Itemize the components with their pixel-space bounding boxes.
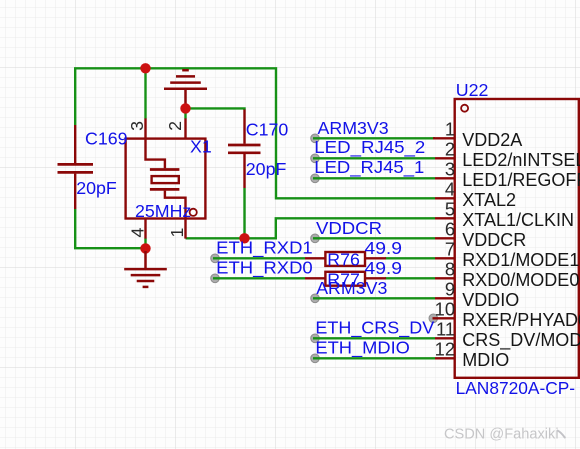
no-connect dot pin10 stub	[429, 314, 438, 323]
svg-text:LAN8720A-CP-: LAN8720A-CP-	[456, 378, 576, 398]
svg-text:ETH_MDIO: ETH_MDIO	[315, 337, 410, 358]
svg-text:C169: C169	[85, 129, 128, 149]
svg-text:2: 2	[165, 121, 185, 131]
svg-text:6: 6	[445, 219, 455, 240]
svg-text:LED1/REGOFF: LED1/REGOFF	[462, 170, 580, 190]
wire net ARM3V3 to IC pin9	[313, 297, 435, 299]
svg-text:RXD1/MODE1: RXD1/MODE1	[462, 250, 579, 270]
svg-text:49.9: 49.9	[365, 238, 403, 258]
svg-text:RXD0/MODE0: RXD0/MODE0	[462, 270, 579, 290]
svg-text:LED_RJ45_2: LED_RJ45_2	[314, 137, 425, 158]
svg-text:CRS_DV/MODE2: CRS_DV/MODE2	[462, 330, 580, 351]
svg-text:3: 3	[127, 121, 147, 131]
wire net VDDCR to IC pin6	[313, 237, 435, 239]
wire ground stub to crystal pin2	[184, 108, 186, 118]
wire crystal pin4 to ground junction	[144, 238, 146, 248]
ground symbol top (at crystal pin2)	[164, 70, 207, 108]
capacitor C170	[228, 110, 261, 189]
svg-text:VDDCR: VDDCR	[462, 230, 526, 250]
crystal X1 part-choice circle	[190, 209, 197, 216]
crystal X1 pin 2 stub	[184, 118, 186, 139]
svg-text:11: 11	[436, 319, 455, 340]
watermark swoosh	[558, 431, 565, 438]
wire pin2 junction to C170 top	[186, 108, 245, 110]
svg-text:9: 9	[445, 279, 455, 300]
svg-text:VDDIO: VDDIO	[462, 290, 519, 310]
svg-text:ARM3V3: ARM3V3	[318, 118, 389, 138]
no-connect dot pin9 wire	[311, 294, 320, 303]
junction dot at crystal pin4 / ground	[140, 243, 150, 253]
svg-text:U22: U22	[456, 80, 489, 100]
svg-text:ETH_CRS_DV: ETH_CRS_DV	[315, 317, 434, 338]
no-connect dot pin11 wire	[311, 334, 320, 343]
svg-text:7: 7	[445, 239, 455, 260]
svg-text:1: 1	[167, 228, 187, 238]
wire C169 bottom to ground junction	[75, 209, 145, 248]
svg-text:12: 12	[435, 339, 455, 360]
svg-text:8: 8	[445, 259, 455, 280]
svg-text:CSDN @Fahaxiki: CSDN @Fahaxiki	[444, 427, 559, 443]
svg-text:20pF: 20pF	[246, 159, 287, 179]
svg-text:LED_RJ45_1: LED_RJ45_1	[314, 157, 424, 178]
wire C170 bottom to XTAL1 net	[243, 188, 245, 238]
wire net LED_RJ45_2 to IC pin2	[313, 157, 435, 159]
wire net ETH_MDIO to IC pin12	[313, 357, 435, 359]
svg-text:ETH_RXD0: ETH_RXD0	[216, 257, 313, 278]
svg-text:VDD2A: VDD2A	[462, 130, 522, 150]
ground symbol bottom (at crystal pin4)	[124, 251, 167, 287]
svg-text:MDIO: MDIO	[462, 350, 509, 370]
svg-text:RXER/PHYAD0: RXER/PHYAD0	[462, 310, 580, 330]
junction dot top net at crystal pin3	[140, 63, 150, 73]
no-connect dot pin2 wire	[311, 154, 320, 163]
crystal X1 quartz body	[152, 176, 179, 183]
svg-text:1: 1	[445, 119, 455, 140]
IC pin names	[462, 130, 580, 370]
crystal X1 inner bottom lead	[165, 191, 186, 219]
svg-text:10: 10	[435, 299, 455, 320]
svg-text:LED2/nINTSEL: LED2/nINTSEL	[462, 150, 580, 170]
crystal X1 top electrode plate	[150, 168, 180, 171]
svg-text:25MHz: 25MHz	[135, 201, 191, 221]
svg-text:20pF: 20pF	[76, 178, 117, 198]
svg-text:R76: R76	[327, 250, 360, 270]
crystal X1 bottom electrode plate	[150, 188, 180, 191]
IC U22 pin stubs 1-12	[433, 138, 455, 358]
wire R77 to IC pin8	[385, 277, 435, 279]
svg-text:XTAL2: XTAL2	[462, 190, 516, 210]
capacitor C169	[58, 125, 94, 209]
no-connect dot pin7 wire	[211, 254, 220, 263]
crystal X1 body box	[126, 139, 206, 219]
wire crystal pin3 drop from top net	[144, 68, 146, 118]
IC pin numbers 1-12	[435, 119, 455, 360]
svg-text:R77: R77	[327, 270, 360, 290]
svg-text:4: 4	[127, 228, 147, 238]
crystal X1 pin 1 stub	[184, 218, 186, 239]
wire net ARM3V3 to IC pin1	[313, 137, 435, 139]
IC U22 body box	[455, 99, 579, 378]
junction dot at crystal pin2 / ground / C170	[180, 103, 190, 113]
svg-text:C170: C170	[246, 119, 289, 139]
svg-text:VDDCR: VDDCR	[316, 218, 382, 238]
svg-text:4: 4	[445, 179, 455, 200]
svg-text:49.9: 49.9	[365, 258, 403, 278]
junction dot at C170 bottom / XTAL1 net	[239, 233, 249, 243]
svg-text:XTAL1/CLKIN: XTAL1/CLKIN	[462, 210, 574, 230]
wire top net XTAL2: C169 top to corner	[75, 68, 435, 198]
wire net ETH_RXD0 to R77	[213, 277, 305, 279]
svg-text:5: 5	[445, 199, 455, 220]
wire net ETH_CRS_DV to IC pin11	[313, 337, 435, 339]
no-connect dot pin3 wire	[311, 174, 320, 183]
IC U22 pin1 marker circle	[461, 105, 468, 112]
crystal X1 pin 3 stub	[144, 118, 146, 139]
no-connect dot pin1 wire	[311, 134, 320, 143]
no-connect dot pin12 wire	[311, 354, 320, 363]
resistor R76	[305, 257, 325, 259]
wire R76 to IC pin7	[385, 257, 435, 259]
svg-text:2: 2	[445, 139, 455, 160]
svg-text:3: 3	[445, 159, 455, 180]
no-connect dot pin6 wire	[311, 234, 320, 243]
crystal X1 pin 4 stub	[144, 218, 146, 239]
resistor R77	[305, 277, 325, 279]
wire net LED_RJ45_1 to IC pin3	[313, 177, 435, 179]
no-connect dot pin8 wire	[211, 274, 220, 283]
svg-text:X1: X1	[190, 137, 212, 157]
wire crystal pin1 to IC pin5 XTAL1/CLKIN	[186, 218, 436, 238]
wire net ETH_RXD1 to R76	[213, 257, 305, 259]
svg-text:ETH_RXD1: ETH_RXD1	[216, 237, 313, 258]
crystal X1 inner top lead	[146, 139, 165, 168]
